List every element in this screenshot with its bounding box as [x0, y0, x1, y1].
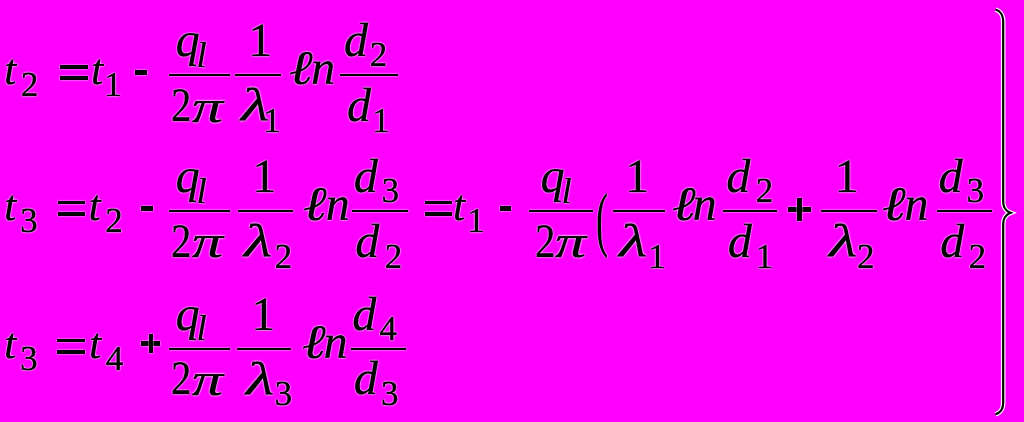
r2 minus 1 [141, 206, 153, 211]
r2 n b [693, 204, 717, 206]
r3 equals bottom bar [57, 350, 85, 354]
r1 t1 sub 1 [104, 84, 122, 86]
r1 1/lam1 sub 1 [263, 120, 281, 122]
r3 plus vbar [149, 334, 154, 353]
r2 t sub 3 [20, 220, 38, 222]
r1 t1 t [91, 70, 103, 72]
r2 ql/2pi a bar [169, 210, 230, 212]
r2 1/lam2 a 1 [252, 176, 276, 178]
r1 ql/2pi pi [192, 106, 223, 108]
r2 ql/2pi b pi [555, 241, 586, 243]
r1 ql/2pi q [176, 40, 200, 42]
r1 ql/2pi bar [169, 74, 230, 76]
r1 1/lam1 lambda [241, 105, 269, 107]
r2 d3/d2 a den sub 2 [385, 256, 403, 258]
r2 d3/d2 b num d [939, 176, 963, 178]
r2 d3/d2 b den sub 2 [969, 256, 987, 258]
r3 equals top bar [57, 339, 85, 343]
r2 t [4, 206, 16, 208]
r3 d4/d3 num sub 4 [380, 328, 398, 330]
r1 script l [289, 68, 313, 70]
r2 1/lam2 a lambda [244, 241, 272, 243]
r3 ql/2pi sub l [197, 327, 207, 329]
r2 n a [326, 204, 350, 206]
r3 ql/2pi pi [192, 379, 223, 381]
r2 d3/d2 a den d [355, 241, 379, 243]
r2 d3/d2 b bar [937, 210, 992, 212]
r3 n [324, 342, 348, 344]
r2 ql/2pi a pi [192, 241, 223, 243]
r3 t [4, 344, 16, 346]
r2 equals 2 top bar [425, 201, 453, 205]
r2 1/lam2 b sub 2 [857, 256, 875, 258]
r1 t sub 2 [21, 84, 39, 86]
r2 t2 t [89, 206, 101, 208]
r2 minus 2 [500, 206, 512, 211]
r2 d3/d2 a bar [352, 210, 408, 212]
r3 d4/d3 den sub 3 [381, 393, 399, 395]
r3 t4 sub 4 [106, 358, 124, 360]
r1 t [4, 70, 16, 72]
r1 minus [135, 70, 147, 75]
r1 1/lam1 1 [248, 40, 272, 42]
r3 1/lam3 1 [251, 314, 275, 316]
r1 ql/2pi 2 [171, 105, 191, 107]
r2 ql/2pi b sub l [562, 190, 572, 192]
r2 script l a [303, 204, 327, 206]
r2 script l c [882, 204, 906, 206]
r2 d3/d2 b num sub 3 [967, 190, 985, 192]
r2 1/lam1 b bar [613, 210, 665, 212]
r1 d2/d1 den d [347, 105, 371, 107]
r1 d2/d1 bar [340, 74, 398, 76]
r2 ql/2pi b q [541, 176, 565, 178]
r2 d2/d1 b num d [726, 176, 750, 178]
r3 d4/d3 bar [351, 348, 407, 350]
r2 1/lam2 b lambda [829, 241, 857, 243]
r2 1/lam1 b 1 [625, 176, 649, 178]
r2 d3/d2 a num d [354, 176, 378, 178]
r2 ql/2pi a sub l [197, 190, 207, 192]
r2 ql/2pi b bar [529, 210, 594, 212]
r1 n [311, 68, 335, 70]
r2 equals 2 bottom bar [425, 212, 453, 216]
r2 1/lam2 b bar [821, 210, 877, 212]
r3 1/lam3 lambda [246, 379, 274, 381]
r2 d3/d2 a num sub 3 [382, 190, 400, 192]
r2 1/lam1 b lambda [619, 241, 647, 243]
r2 d2/d1 b den sub 1 [756, 256, 774, 258]
r3 t4 t [89, 344, 101, 346]
r3 ql/2pi 2 [171, 378, 191, 380]
r2 d3/d2 b den d [940, 241, 964, 243]
r1 equals bottom bar [60, 76, 88, 80]
r2 equals 1 bottom bar [58, 212, 86, 216]
r2 t1 t [453, 206, 465, 208]
r1 equals top bar [60, 65, 88, 69]
r3 plus hbar [141, 341, 160, 346]
r2 plus hbar [788, 207, 811, 212]
r3 1/lam3 bar [237, 348, 291, 350]
r1 d2/d1 num sub 2 [370, 54, 388, 56]
r3 t sub 3 [20, 358, 38, 360]
r2 script l b [672, 204, 696, 206]
r3 ql/2pi bar [169, 348, 230, 350]
r3 d4/d3 num d [352, 314, 376, 316]
r2 d2/d1 b den d [728, 241, 752, 243]
r2 1/lam2 a sub 2 [275, 256, 293, 258]
r1 d2/d1 den sub 1 [372, 120, 390, 122]
r1 ql/2pi sub l [197, 54, 207, 56]
r2 ql/2pi b 2 [535, 241, 555, 243]
r1 d2/d1 num d [344, 40, 368, 42]
r2 t1 sub 1 [467, 220, 485, 222]
r2 d2/d1 b bar [723, 210, 777, 212]
r2 plus vbar [797, 198, 802, 221]
r1 1/lam1 bar [235, 74, 281, 76]
r2 1/lam2 a bar [238, 210, 294, 212]
r3 d4/d3 den d [354, 378, 378, 380]
r2 d2/d1 b num sub 2 [756, 190, 774, 192]
r2 ql/2pi a 2 [171, 241, 191, 243]
r2 ql/2pi a q [176, 176, 200, 178]
r2 1/lam1 b sub 1 [648, 256, 666, 258]
r3 script l [302, 342, 326, 344]
r2 equals 1 top bar [58, 201, 86, 205]
r2 t2 sub 2 [105, 220, 123, 222]
r2 n c [905, 204, 929, 206]
r2 lparen [596, 218, 608, 220]
r3 ql/2pi q [176, 314, 200, 316]
r3 1/lam3 sub 3 [275, 393, 293, 395]
r2 1/lam2 b 1 [835, 176, 859, 178]
